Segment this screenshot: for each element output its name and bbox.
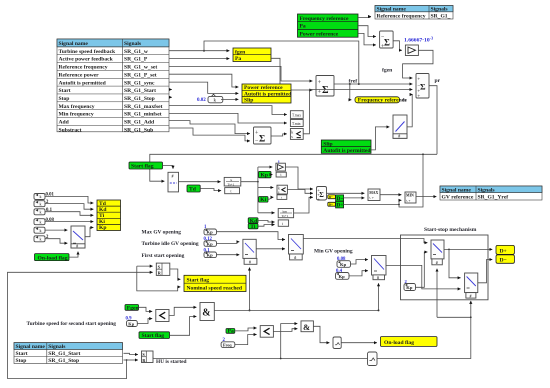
svg-text:Signal name: Signal name <box>442 187 472 193</box>
and output trunk <box>214 283 378 310</box>
green tag stack: Frequency reference / Pa / Power reference <box>298 14 359 37</box>
relay block T.max <box>290 111 303 119</box>
wire AND2 to ED1 <box>313 326 329 342</box>
svg-text:Td: Td <box>99 201 107 207</box>
wire KpC to SW3 <box>217 254 240 256</box>
svg-text:Autofit is permitted: Autofit is permitted <box>244 91 292 97</box>
wire DV out to U5 <box>287 190 313 194</box>
svg-text:Power reference: Power reference <box>244 85 283 91</box>
wire T1 r3 to U3 in1 <box>169 66 312 81</box>
svg-text:Reference power: Reference power <box>59 72 100 78</box>
sum block U5 (PID sum) <box>317 187 327 202</box>
switch SW2 (on-load param select) <box>71 226 85 249</box>
svg-text:Pa: Pa <box>235 56 241 62</box>
wire T1 r9 to T.min <box>169 113 287 123</box>
wire branch to Frequency reference display <box>350 84 352 100</box>
wire SW6 control from below <box>436 269 438 318</box>
svg-text:Min GV opening: Min GV opening <box>314 249 353 255</box>
wire MIN to T3 <box>416 196 436 198</box>
wire fref: U3 out to U2 <box>334 83 412 85</box>
svg-text:SR_G1_Sub: SR_G1_Sub <box>124 127 153 133</box>
wire row1 top trunk to fref junction <box>204 41 359 84</box>
wire LT1 to AND1 <box>169 307 196 315</box>
wire On-load flag to SW2 control <box>69 252 78 258</box>
yellow display stack: Power reference / Autofit is permitted / Slip <box>242 84 292 104</box>
wire Kp2 to GD param <box>271 174 273 176</box>
const gain KpD <box>337 257 351 268</box>
sum block U3 (fref) <box>316 76 334 97</box>
svg-text:Pa: Pa <box>228 329 234 335</box>
svg-text:Signals: Signals <box>48 344 66 350</box>
svg-text:k: k <box>40 237 42 242</box>
svg-text:Freq: Freq <box>223 342 232 347</box>
wire SW7 out to D- tag <box>478 260 493 283</box>
display: Frequency reference (yellow) <box>355 97 407 104</box>
svg-text:#: # <box>249 259 251 264</box>
svg-text:Frequency reference: Frequency reference <box>300 16 349 22</box>
wire Pa to U1 minus <box>358 26 376 37</box>
svg-text:#: # <box>398 134 400 139</box>
svg-text:k: k <box>40 228 42 233</box>
const gain KpB <box>204 237 217 247</box>
slider values <box>46 193 55 241</box>
svg-text:Kp: Kp <box>128 321 134 326</box>
svg-text:SR_G1_Add: SR_G1_Add <box>124 120 155 126</box>
wire Td to TF1 param <box>200 189 221 191</box>
svg-text:Reference frequency: Reference frequency <box>59 65 108 71</box>
wire stub T1 r6 Start <box>169 89 172 91</box>
svg-text:Ti: Ti <box>250 224 256 230</box>
and gate AND1 <box>200 303 214 321</box>
svg-text:Power reference: Power reference <box>300 31 339 37</box>
svg-text:Max frequency: Max frequency <box>59 104 95 110</box>
svg-text:Start flag: Start flag <box>142 333 165 339</box>
svg-text:Nominal speed reached: Nominal speed reached <box>187 286 243 292</box>
wire U5 out to MAX <box>327 192 365 194</box>
svg-text:D+: D+ <box>329 203 333 207</box>
svg-text:0.08: 0.08 <box>46 218 55 223</box>
svg-text:Min frequency: Min frequency <box>59 112 94 118</box>
svg-text:k: k <box>40 210 42 215</box>
switch SW1 (integrator hold) <box>168 172 179 192</box>
wire KpD to SW5 <box>351 260 368 264</box>
svg-text:Reference frequency: Reference frequency <box>377 13 426 19</box>
sum block U2 (pr) <box>416 74 429 100</box>
svg-text:D+: D+ <box>500 248 507 254</box>
wire T1 r10 to U4 plus <box>169 121 250 134</box>
switch SW4 (max GV) <box>289 235 304 261</box>
wire trunk to GD <box>258 166 272 168</box>
svg-text:Kp: Kp <box>261 173 268 179</box>
svg-text:SR_G1_Stop: SR_G1_Stop <box>124 96 155 102</box>
svg-text:SR_G1_Yref: SR_G1_Yref <box>478 194 509 200</box>
svg-text:&: & <box>202 308 210 319</box>
PID trunk vertical <box>257 167 259 213</box>
comparator LE <box>290 129 303 140</box>
relay block T.min <box>290 120 303 127</box>
wire SR1 S input net with loop to Nominal speed reached <box>137 265 153 267</box>
svg-text:pr: pr <box>435 78 441 84</box>
svg-text:Σ: Σ <box>319 191 324 199</box>
svg-text:Start: Start <box>16 351 28 357</box>
subsystem box SSM <box>401 235 489 300</box>
svg-text:k: k <box>40 194 42 199</box>
svg-text:Kd: Kd <box>99 207 107 213</box>
wire ED1 to On-load flag <box>341 342 377 344</box>
svg-text:k: k <box>40 201 42 206</box>
svg-text:#: # <box>294 255 296 260</box>
wire KpA to SW4 <box>217 232 286 240</box>
svg-text:#: # <box>76 245 78 249</box>
gain k block <box>208 94 223 103</box>
green tags D- / D+ <box>336 195 344 209</box>
svg-text:Start: Start <box>59 88 71 94</box>
svg-text:Add: Add <box>59 120 70 126</box>
svg-text:Pa: Pa <box>300 24 306 30</box>
wire Dminus tag to MAX in2 <box>344 197 365 199</box>
svg-text:GV reference: GV reference <box>442 194 474 200</box>
const gain KpF 0.9 <box>126 317 138 327</box>
wire T1 r8 to T.max <box>169 106 287 115</box>
integrator block IM <box>278 209 293 227</box>
const gain KpA <box>204 225 217 235</box>
svg-text:First start opening: First start opening <box>142 253 185 259</box>
svg-text:km: km <box>283 210 288 214</box>
svg-text:Signals: Signals <box>478 187 496 193</box>
signal table T1 rows <box>57 39 169 133</box>
svg-text:Substract: Substract <box>59 127 82 133</box>
svg-text:Autofit is permitted: Autofit is permitted <box>323 148 371 154</box>
svg-text:HU is started: HU is started <box>156 359 187 365</box>
svg-text:On-load flag: On-load flag <box>384 340 414 346</box>
svg-text:Slip: Slip <box>244 98 253 104</box>
and gate AND2 <box>301 321 313 332</box>
svg-text:SR_G1_minfset: SR_G1_minfset <box>124 112 162 118</box>
svg-text:t: t <box>281 196 282 200</box>
svg-text:Ki: Ki <box>260 197 266 203</box>
switch SW5 (min GV) <box>372 256 387 281</box>
svg-text:SR_G1_Start: SR_G1_Start <box>48 351 80 357</box>
svg-text:t: t <box>231 189 232 193</box>
minmax MIN <box>405 192 416 203</box>
wire T1 r1 to fgen tag <box>169 50 229 52</box>
svg-text:Kp: Kp <box>99 225 106 231</box>
svg-text:#: # <box>172 174 174 179</box>
gain G1 <box>405 45 418 56</box>
divide block DV <box>277 185 287 199</box>
wire GD out to U5 <box>285 167 313 189</box>
green tag Start flag (mid) <box>129 162 163 170</box>
HU trunk wire <box>153 301 471 359</box>
wire SW3 out to SW4 <box>256 248 285 250</box>
yellow param stack Td/Kd/Ti/Ki/Kp <box>97 200 121 231</box>
svg-text:SR_G1_Stop: SR_G1_Stop <box>48 358 79 364</box>
svg-text:On-load flag: On-load flag <box>38 255 68 261</box>
svg-text:Ts+1: Ts+1 <box>228 183 235 187</box>
big feedback loop: Stop wire to SR1 R <box>8 272 153 378</box>
green tag Td <box>187 185 200 193</box>
svg-text:MIN: MIN <box>406 194 414 198</box>
svg-text:Start flag: Start flag <box>131 164 154 170</box>
yellow mini tags D-/D+ <box>328 195 336 207</box>
wire SW0 out up to U2 in4 <box>407 95 413 127</box>
svg-text:+: + <box>317 196 320 201</box>
svg-text:D−: D− <box>500 258 507 264</box>
switch SW6 (in SSM) <box>431 240 444 265</box>
wire Freq to LT2 <box>235 335 257 345</box>
wire Start flag to AND1 <box>170 317 197 336</box>
PID trunk wire <box>241 181 258 183</box>
wire T4 Start to SR2 S <box>124 353 138 354</box>
svg-text:+: + <box>417 94 420 100</box>
comparator LT1 <box>156 310 169 322</box>
svg-text:+: + <box>417 77 420 83</box>
svg-text:#: # <box>436 260 438 265</box>
signal table T2 (top right) <box>375 6 453 20</box>
wire SW1 out to TF1 <box>179 181 221 183</box>
svg-text:SR_G1_w_set: SR_G1_w_set <box>124 65 157 71</box>
svg-text:Kp: Kp <box>207 230 214 235</box>
wire KpB to SW3 <box>217 242 240 244</box>
switch SW7 (in SSM) <box>465 273 478 298</box>
wire trunk to IM <box>258 212 275 214</box>
wire trunk to DV <box>258 187 274 189</box>
wire stub T1 r7 Stop <box>169 96 172 98</box>
svg-text:Kp: Kp <box>207 253 214 258</box>
gain triangle GD <box>276 160 286 178</box>
wires sliders to SW2 <box>45 229 67 231</box>
green tag Kp2 <box>259 171 272 178</box>
green tags Kd / Ti <box>248 218 258 230</box>
svg-text:Σ: Σ <box>384 38 390 48</box>
svg-text:k: k <box>40 219 42 224</box>
yellow From tags: fgen / Pa <box>233 48 271 62</box>
svg-text:Turbine speed feedback: Turbine speed feedback <box>59 49 117 55</box>
svg-text:Signals: Signals <box>431 7 449 13</box>
small slider gains SL1..SL6 (left column) <box>34 194 45 242</box>
svg-text:Signals: Signals <box>124 41 142 47</box>
yellow tag D+ <box>496 245 514 254</box>
wire Pa to LT2 <box>235 328 257 331</box>
svg-text:Signal name: Signal name <box>59 41 89 47</box>
wire MAX to MIN <box>380 194 401 196</box>
wire T4 Stop to SR2 R <box>124 359 138 361</box>
wire SW5 out to SSM switch2 <box>386 265 461 289</box>
svg-text:Start flag: Start flag <box>187 278 210 284</box>
svg-text:SR_G1_: SR_G1_ <box>431 13 451 19</box>
wires Kd Ti to IM params <box>258 221 275 223</box>
signal table T4 (bottom) <box>14 343 123 364</box>
svg-text:Σ: Σ <box>420 82 426 92</box>
svg-text:MAX: MAX <box>369 191 378 195</box>
latch SR1 <box>156 263 170 275</box>
wire SW4 out to SSM trunk <box>303 239 427 243</box>
wire Fgen to LT1 <box>139 307 153 311</box>
svg-text:#: # <box>377 275 379 280</box>
green tag stack: Slip / Autofit is permitted <box>321 140 371 154</box>
latch SR2 <box>142 351 154 363</box>
wire Power reference to U1 plus <box>358 33 376 45</box>
const gain KpG (in SSM) <box>404 279 416 291</box>
green tag On-load flag <box>35 254 70 262</box>
wire pr trunk mid drop to SSM switch <box>399 154 423 207</box>
svg-text:Fgen: Fgen <box>127 305 140 311</box>
const gain KpC <box>204 248 217 257</box>
wire KpE to SW5 <box>349 271 368 276</box>
yellow display On-load flag <box>381 337 438 347</box>
yellow tag D- <box>496 255 514 264</box>
svg-text:Start-stop mechanism: Start-stop mechanism <box>424 227 477 233</box>
svg-text:SR_G1_maxfset: SR_G1_maxfset <box>124 104 163 110</box>
wire U2 pr out down-left trunk <box>429 86 437 155</box>
wire SW6 out to D+ tag <box>444 248 492 250</box>
const gain KpE <box>336 269 350 280</box>
wire IM out to U5 <box>294 197 313 213</box>
transfer fcn TF1 k/(Ts+1) <box>224 177 241 193</box>
svg-text:Turbine idle GV opening: Turbine idle GV opening <box>142 241 199 247</box>
svg-text:t: t <box>282 222 283 226</box>
svg-text:fgen: fgen <box>382 68 393 74</box>
svg-text:SR_G1_w: SR_G1_w <box>124 49 149 55</box>
green tag Fgen <box>125 305 139 312</box>
green tag Ki <box>259 197 269 204</box>
svg-text:Ti: Ti <box>99 213 105 219</box>
svg-text:Signal name: Signal name <box>377 7 407 13</box>
wire T1 r5 to Autofit display <box>169 82 238 93</box>
wire T1 r11 to U4 minus <box>169 128 250 141</box>
wire KpG to SW6 <box>416 252 428 287</box>
wire Dplus tag to MIN in2 <box>344 204 399 206</box>
wire Pa tag to U3 in2 <box>271 58 312 90</box>
svg-text:Kp: Kp <box>339 274 346 279</box>
wire U1 to G1 <box>393 41 402 51</box>
svg-text:SR_G1_P_set: SR_G1_P_set <box>124 72 157 78</box>
green tag Start flag (bottom) <box>139 332 170 339</box>
yellow display: Start flag / Nominal speed reached <box>184 275 246 291</box>
svg-text:Autofit is permitted: Autofit is permitted <box>59 80 107 86</box>
svg-text:Slip: Slip <box>323 142 332 148</box>
svg-text:+: + <box>318 79 322 86</box>
svg-text:SR_G1_Start: SR_G1_Start <box>124 88 156 94</box>
svg-text:T.min: T.min <box>292 122 301 126</box>
svg-text:Kp: Kp <box>207 241 214 246</box>
svg-text:Σ: Σ <box>322 85 329 96</box>
signal table T1 (left) <box>57 39 169 132</box>
AND trunk branch up to SW3 control <box>249 268 251 311</box>
wire green row1 to T2 <box>358 17 371 18</box>
svg-text:Td: Td <box>189 187 197 193</box>
svg-text:Turbine speed for second start: Turbine speed for second start opening <box>27 321 117 327</box>
svg-text:Ts+1: Ts+1 <box>282 214 289 218</box>
svg-text:fs: fs <box>403 98 407 104</box>
wire T1 r2 to Pa tag <box>169 58 229 60</box>
svg-text:Signal name: Signal name <box>16 344 46 350</box>
wire SR1 out to display <box>170 269 181 279</box>
wires sliders to param stack <box>45 196 93 203</box>
svg-text:T.max: T.max <box>292 113 301 117</box>
wire LT2 to AND2 <box>273 329 297 332</box>
svg-text:Active power feedback: Active power feedback <box>59 57 114 63</box>
svg-text:Max GV opening: Max GV opening <box>142 229 182 235</box>
green tag Pa (bottom) <box>226 329 235 335</box>
wire T1 r4 to Power reference display <box>169 74 238 87</box>
wire LE out up to U2 in3 <box>303 90 412 134</box>
svg-text:1.66667·10-3: 1.66667·10-3 <box>404 36 433 44</box>
svg-text:Ki: Ki <box>99 219 105 225</box>
svg-text:Kp: Kp <box>340 262 347 267</box>
sum block U4 <box>254 127 272 145</box>
wire Ki to DV param <box>268 197 273 199</box>
edge detect ED1 <box>333 337 341 349</box>
svg-text:SR_G1_sync: SR_G1_sync <box>124 80 155 86</box>
svg-text:&: & <box>303 322 310 332</box>
svg-text:#: # <box>470 293 472 298</box>
svg-text:D−: D− <box>329 195 333 199</box>
signal table T3 (GV reference) <box>440 186 542 200</box>
wire SW2 out to Kp param <box>85 228 93 237</box>
svg-text:t: t <box>281 173 282 177</box>
comparator LT2 <box>260 326 273 338</box>
svg-text:Σ: Σ <box>259 135 265 145</box>
wire Autofit tag to SW0 control <box>371 127 389 150</box>
sum block U1 <box>380 31 394 50</box>
svg-text:Frequency reference: Frequency reference <box>358 97 407 103</box>
svg-text:0.02: 0.02 <box>197 98 206 103</box>
const block Freq <box>221 338 235 347</box>
svg-text:D+: D+ <box>336 203 343 209</box>
wire branch SW6 out down to SW7 <box>449 249 461 277</box>
wire pr trunk left arm <box>150 154 437 181</box>
switch SW3 (trio select) <box>243 239 257 264</box>
saturation switch SW0 <box>393 115 407 139</box>
svg-text:0.1: 0.1 <box>46 208 53 213</box>
wire U4 out to LE in <box>271 134 287 136</box>
svg-text:SR_G1_P: SR_G1_P <box>124 57 148 63</box>
wire G1 loop to U2 input1 <box>403 50 433 78</box>
svg-text:fgen: fgen <box>235 49 246 55</box>
wire KpF to LT1 <box>137 319 152 324</box>
wire Start flag to SW1 top <box>163 166 174 169</box>
wire k to Slip display <box>221 98 238 100</box>
minmax MAX <box>368 189 380 201</box>
svg-text:Stop: Stop <box>16 358 27 364</box>
wire HU trunk up into AND2 top <box>281 324 298 359</box>
edge detect ED2 <box>368 352 378 366</box>
svg-text:Stop: Stop <box>59 96 70 102</box>
